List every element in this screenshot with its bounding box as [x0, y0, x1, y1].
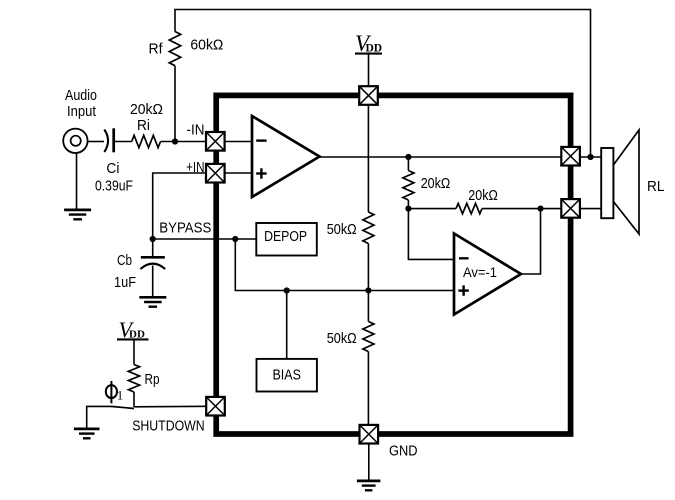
svg-text:20kΩ: 20kΩ: [468, 187, 498, 204]
resistor 50k upper: [363, 212, 374, 244]
wire DEPOP node down to U2 + input: [235, 239, 454, 291]
pin GND: [360, 425, 379, 444]
wire U1 output to speaker through pin Vo1: [320, 156, 602, 158]
node inverter in node: [405, 206, 411, 212]
pin SHUTDOWN: [206, 397, 225, 416]
pin Vo1: [561, 147, 580, 166]
svg-text:60kΩ: 60kΩ: [190, 37, 223, 54]
BIAS block: [257, 359, 317, 392]
wire Ci to Ri: [115, 141, 132, 143]
ground GND pin: [357, 481, 381, 490]
svg-text:1uF: 1uF: [114, 274, 136, 291]
switch lever phi1: [111, 406, 134, 408]
wire BIAS node down to BIAS box: [286, 291, 288, 360]
wire BYPASS node to Cb: [152, 239, 154, 256]
svg-text:Audio: Audio: [65, 87, 97, 104]
node divider mid node: [365, 287, 371, 293]
wire GND pin to ground: [368, 440, 370, 480]
svg-text:Cb: Cb: [117, 252, 132, 269]
wire Cb to ground: [152, 266, 154, 298]
svg-text:Av=-1: Av=-1: [463, 265, 497, 280]
IC boundary box: [216, 95, 570, 434]
ground Cb: [139, 297, 166, 306]
capacitor Ci: [104, 128, 113, 152]
connector audio input jack: [63, 129, 87, 153]
node Vo1 node: [587, 154, 593, 160]
wire connector to ground: [76, 154, 78, 210]
wire 20k vertical to node: [407, 200, 409, 209]
svg-text:+IN: +IN: [186, 159, 205, 176]
ground audio input: [64, 210, 91, 219]
pin -IN: [206, 132, 225, 151]
svg-text:Rp: Rp: [145, 371, 160, 388]
resistor 50k lower: [363, 322, 374, 352]
wire VDD label to pin: [368, 55, 370, 93]
wire Rf bottom to input node: [174, 66, 176, 142]
wire node to 20k horizontal to pin Vo2 and speaker: [408, 208, 456, 210]
node U2 out node: [537, 206, 543, 212]
resistor Ri: [132, 135, 161, 147]
wire pin +IN left and down to BYPASS node: [153, 173, 208, 239]
node U1 out node: [405, 154, 411, 160]
switch control phi1: [106, 381, 124, 403]
wire switch node to pin SHUTDOWN: [134, 405, 209, 408]
svg-text:0.39uF: 0.39uF: [95, 178, 133, 195]
wire U2 output up to Vo2 node: [521, 209, 541, 274]
resistor 20k vertical: [403, 171, 414, 201]
pin Vo2: [561, 199, 580, 218]
wire connector to Ci: [88, 141, 104, 143]
svg-text:BIAS: BIAS: [273, 367, 301, 384]
resistor Rp: [128, 365, 139, 393]
wire BYPASS node to DEPOP: [153, 238, 257, 240]
wire Vo1 node to 20k vertical: [407, 157, 409, 171]
node input node: [172, 138, 178, 144]
svg-text:20kΩ: 20kΩ: [421, 175, 451, 192]
wire Rp to switch node: [133, 392, 135, 407]
pin VDD: [359, 86, 378, 105]
resistor Rf: [169, 32, 180, 66]
svg-text:50kΩ: 50kΩ: [327, 330, 357, 347]
wire VDD pin down divider upper: [367, 100, 369, 212]
svg-text:Rf: Rf: [149, 41, 164, 58]
ground shutdown switch: [74, 429, 100, 438]
wire 50k lower to GND pin: [367, 352, 369, 431]
svg-text:SHUTDOWN: SHUTDOWN: [132, 417, 205, 434]
svg-text:GND: GND: [389, 443, 418, 460]
wire between 50k resistors: [367, 244, 369, 322]
svg-text:DEPOP: DEPOP: [264, 228, 307, 245]
wire pin +IN to op-amp U1: [223, 172, 252, 174]
wire Ri to pin -IN: [161, 141, 209, 143]
speaker RL: [601, 130, 639, 234]
svg-text:Ci: Ci: [106, 160, 119, 177]
wire VDD2 to Rp: [133, 340, 135, 365]
wire switch to ground: [87, 406, 112, 428]
svg-text:20kΩ: 20kΩ: [130, 101, 163, 118]
resistor 20k horizontal: [456, 203, 482, 213]
wire node to U2 - input: [408, 209, 454, 260]
power VDD shutdown: [117, 317, 149, 342]
power VDD top: [355, 31, 382, 56]
wire feedback Rf top to Vo1 node: [175, 10, 591, 158]
pin +IN: [206, 164, 225, 183]
svg-text:RL: RL: [647, 178, 665, 195]
DEPOP block: [256, 223, 317, 256]
node DEPOP node: [232, 236, 238, 242]
svg-text:-IN: -IN: [187, 122, 205, 139]
svg-text:1: 1: [117, 388, 124, 403]
op-amp U1: [252, 116, 320, 197]
svg-text:Input: Input: [67, 103, 97, 120]
svg-text:BYPASS: BYPASS: [159, 220, 211, 237]
label Audio Input: [65, 87, 97, 120]
node BYPASS node: [150, 236, 156, 242]
svg-text:Ri: Ri: [137, 117, 150, 134]
svg-text:50kΩ: 50kΩ: [327, 221, 357, 238]
node BIAS node: [284, 287, 290, 293]
wire pin -IN to op-amp U1: [223, 141, 252, 143]
capacitor Cb: [140, 257, 165, 269]
op-amp U2 Av=-1: [454, 234, 521, 315]
